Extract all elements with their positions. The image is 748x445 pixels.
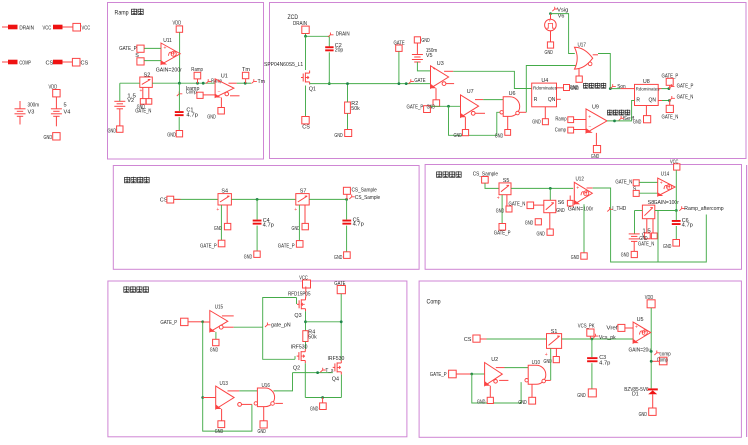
wire [587, 187, 593, 189]
node IRF530 label [291, 344, 308, 350]
svg-text:GND: GND [334, 133, 342, 139]
ground [505, 130, 511, 136]
ground [244, 251, 260, 260]
node drain junction [304, 35, 307, 38]
svg-text:GND: GND [591, 154, 599, 160]
port pin square [556, 200, 573, 214]
port pin square [651, 233, 657, 239]
capacitor C4 [253, 218, 274, 229]
svg-text:Comp: Comp [186, 90, 197, 96]
wire [607, 101, 635, 121]
svg-text:GND: GND [292, 226, 300, 232]
svg-text:V5: V5 [426, 53, 433, 59]
svg-text:GND: GND [577, 393, 585, 399]
node BZV85-5V6 label [624, 387, 648, 393]
port VCC [43, 23, 91, 31]
node comp junction [650, 350, 653, 353]
wire [203, 397, 216, 399]
wire [456, 373, 472, 375]
node ts junction [316, 371, 319, 374]
node cs junction [256, 198, 259, 201]
svg-text:GATE_P: GATE_P [200, 244, 217, 250]
node gate_pN label [265, 323, 291, 329]
svg-text:+: + [164, 46, 167, 52]
logic gate U17 [575, 43, 593, 70]
wire [230, 95, 240, 97]
svg-text:GND: GND [633, 119, 641, 125]
node S [135, 53, 139, 59]
wire [322, 398, 324, 403]
wire [222, 315, 234, 317]
ground [414, 37, 430, 44]
wire [483, 99, 503, 101]
svg-text:GND: GND [496, 209, 504, 215]
port pin square [140, 99, 146, 105]
port Ramp [555, 117, 573, 123]
node cssample junction [345, 198, 348, 201]
svg-text:Q1: Q1 [309, 86, 316, 92]
port GATE_P [494, 224, 511, 237]
capacitor C1 [175, 108, 198, 119]
wire [639, 192, 658, 194]
node push-pull block frame [108, 281, 407, 437]
wire [550, 348, 552, 380]
flip-flop U4 [532, 78, 558, 107]
port pin square [214, 223, 231, 232]
svg-text:Comp: Comp [427, 299, 441, 306]
wire [256, 226, 258, 251]
transistor Q3 [294, 297, 305, 319]
node GATE_N label [669, 95, 693, 101]
wire [226, 205, 228, 223]
op-amp U7 [461, 89, 479, 117]
node title push-pull [124, 286, 149, 292]
svg-text:GND: GND [207, 115, 216, 121]
ground [210, 339, 219, 353]
svg-text:U12: U12 [576, 176, 584, 182]
svg-text:+: + [588, 114, 591, 120]
svg-text:U14: U14 [661, 171, 669, 177]
wire [544, 107, 546, 119]
ground [537, 229, 554, 237]
svg-text:+: + [217, 79, 220, 85]
wire [635, 210, 643, 212]
switch S1 [545, 329, 562, 358]
svg-text:T_s: T_s [325, 368, 333, 374]
svg-text:4.7p: 4.7p [263, 223, 274, 229]
wire [578, 69, 580, 76]
ground [633, 116, 651, 126]
node Seff label [619, 116, 635, 122]
ground [334, 252, 350, 261]
voltage source V3 [15, 101, 40, 125]
node IRF530 label [328, 356, 345, 362]
node GND label [334, 133, 342, 139]
wire [215, 332, 217, 339]
ground [477, 397, 493, 405]
port pin square [137, 58, 144, 65]
ground [44, 133, 61, 141]
node gatep junction [668, 87, 671, 90]
resistor R4 [303, 330, 317, 342]
svg-text:S6: S6 [558, 200, 565, 206]
wire [309, 198, 346, 200]
node Ramp block frame [108, 3, 264, 160]
svg-text:D1: D1 [632, 392, 639, 398]
node T_s label [320, 368, 334, 375]
svg-text:+: + [635, 324, 638, 330]
wire [485, 183, 499, 188]
port CS [160, 196, 174, 203]
port VCS_PK [578, 324, 595, 337]
port pin square [544, 357, 560, 365]
svg-text:50k: 50k [308, 335, 317, 341]
svg-text:+: + [433, 66, 436, 72]
svg-text:RFD15P05: RFD15P05 [288, 292, 311, 298]
node comp label [654, 351, 670, 358]
svg-text:GND: GND [495, 134, 503, 140]
port Comp [555, 127, 574, 133]
wire [296, 298, 298, 305]
wire [507, 116, 509, 129]
wire [669, 101, 671, 106]
wire [298, 205, 300, 241]
wire [501, 195, 503, 224]
port pin square [496, 206, 512, 215]
svg-text:V2: V2 [127, 98, 134, 104]
logic gate U10 [525, 360, 546, 384]
wire [444, 70, 453, 72]
wire [231, 198, 295, 200]
wire [435, 88, 437, 100]
node S8 label [648, 200, 655, 206]
op-amp U12 [568, 176, 593, 212]
wire [662, 88, 669, 90]
port GATE_N [662, 105, 679, 120]
svg-text:GND: GND [427, 104, 435, 110]
wire [557, 87, 564, 89]
svg-text:R: R [534, 97, 538, 103]
wire [526, 66, 575, 113]
svg-text:GND: GND [545, 50, 553, 56]
svg-text:GATE_N: GATE_N [662, 115, 679, 121]
svg-text:GATE_N: GATE_N [509, 202, 526, 208]
ground [345, 130, 352, 137]
svg-text:GATE_P: GATE_P [677, 84, 694, 90]
wire [534, 204, 544, 206]
svg-text:V3: V3 [28, 110, 35, 116]
port GATE_P [662, 73, 679, 85]
wire [178, 117, 180, 130]
wire [274, 373, 293, 391]
wire [489, 386, 491, 398]
svg-text:U13: U13 [220, 381, 228, 387]
wire [658, 100, 662, 102]
wire [655, 210, 677, 212]
node RFD15P05 label [288, 292, 311, 298]
svg-text:QN: QN [548, 97, 556, 103]
capacitor C5 [342, 218, 363, 228]
svg-text:VCC: VCC [82, 26, 91, 32]
wire [746, 165, 748, 437]
wire [499, 379, 508, 381]
port CS [46, 58, 89, 66]
svg-text:+: + [294, 207, 297, 213]
capacitor C3 [587, 355, 610, 367]
wire [263, 407, 265, 421]
wire [506, 195, 508, 206]
svg-text:−: − [218, 89, 221, 95]
wire [675, 170, 677, 210]
op-amp U11 [156, 38, 182, 74]
port GATE_P [430, 370, 456, 378]
wire [662, 100, 669, 102]
capacitor C2 [325, 43, 343, 54]
wire [275, 402, 283, 404]
transistor Q4 [332, 360, 342, 382]
wire [480, 338, 546, 340]
port pin square [146, 99, 152, 105]
node vcspk junction [591, 338, 594, 341]
wire [120, 82, 140, 84]
node ramp junction [196, 82, 199, 85]
svg-text:Q4: Q4 [332, 377, 339, 383]
wire [658, 88, 661, 90]
port GATE [394, 40, 406, 51]
svg-text:GND: GND [518, 400, 526, 406]
svg-text:DRAIN: DRAIN [336, 32, 350, 38]
ground [167, 131, 182, 139]
svg-text:U11: U11 [163, 38, 172, 44]
ground [576, 76, 582, 82]
svg-text:CS: CS [302, 125, 310, 131]
wire [328, 36, 330, 46]
svg-text:Vref: Vref [606, 326, 618, 332]
wire [223, 326, 234, 328]
wire [639, 181, 658, 183]
svg-text:I_THD: I_THD [612, 206, 626, 212]
switch S2 [140, 72, 153, 93]
svg-text:U6: U6 [509, 91, 516, 97]
ground [310, 403, 326, 413]
svg-text:4.7p: 4.7p [682, 223, 693, 229]
svg-text:CS: CS [46, 61, 54, 67]
wire [340, 294, 342, 361]
port GATE_P [407, 104, 436, 112]
svg-text:Rdominates: Rdominates [636, 86, 661, 91]
wire [464, 117, 466, 129]
node gate junction [340, 320, 343, 323]
wire [237, 82, 251, 84]
voltage source V2 [114, 94, 136, 126]
svg-text:GATE_P: GATE_P [494, 231, 511, 237]
wire [398, 51, 400, 83]
wire [305, 86, 307, 117]
op-amp U9 [586, 105, 607, 133]
svg-text:Q3: Q3 [294, 313, 301, 319]
port DRAIN [293, 21, 309, 34]
wire [583, 204, 585, 253]
wire [242, 403, 252, 405]
wire [574, 119, 586, 121]
wire [340, 375, 342, 398]
node Ramp label [206, 79, 222, 85]
svg-text:V4: V4 [64, 110, 71, 116]
power VCC [670, 160, 680, 171]
ground [518, 397, 535, 406]
ground [215, 421, 225, 435]
wire [549, 213, 551, 229]
port GATE_P [278, 241, 303, 250]
svg-text:GATE: GATE [414, 78, 426, 84]
wire [453, 71, 532, 88]
node Son label [610, 84, 625, 90]
wire [675, 226, 677, 240]
node title ZCD [288, 14, 299, 21]
wire [551, 14, 575, 54]
node title Ramp [115, 9, 144, 17]
svg-text:Q2: Q2 [293, 366, 300, 372]
ground [663, 240, 680, 251]
op-amp U1 [215, 73, 234, 97]
svg-text:GATE_P: GATE_P [430, 372, 447, 378]
node ZCD block frame [270, 3, 747, 159]
wire [346, 226, 348, 252]
wire [475, 112, 485, 114]
svg-text:4.7p: 4.7p [353, 222, 364, 228]
svg-text:GAIN=100r: GAIN=100r [654, 200, 679, 206]
wire [621, 88, 635, 90]
svg-text:GATE_P: GATE_P [278, 244, 295, 250]
wire [520, 111, 527, 113]
wire [174, 198, 218, 200]
wire [256, 199, 258, 219]
svg-text:GATE_P: GATE_P [407, 105, 424, 111]
ground [108, 126, 124, 135]
svg-text:20p: 20p [335, 48, 343, 54]
port Comp [186, 90, 203, 99]
wire [294, 356, 296, 359]
node gatep junction [201, 320, 204, 323]
node title Comp [427, 299, 441, 306]
node Comp block frame [419, 281, 741, 437]
port pin square [633, 190, 639, 196]
switch S8 [642, 205, 654, 219]
port GATE_P [119, 45, 144, 52]
wire [598, 54, 621, 89]
svg-text:Tm: Tm [258, 79, 266, 85]
node D1 label [632, 392, 639, 398]
switch S6 [544, 200, 564, 213]
port pin square [292, 223, 309, 232]
svg-text:+: + [576, 186, 579, 192]
svg-text:GND: GND [663, 244, 671, 250]
port GATE_P [200, 240, 225, 249]
svg-text:GND: GND [421, 38, 429, 44]
power VDD [645, 295, 655, 308]
resistor R2 [345, 101, 360, 113]
wire [557, 98, 561, 100]
svg-text:U7: U7 [467, 89, 474, 95]
wire [417, 62, 430, 71]
ground [207, 108, 224, 121]
svg-text:GND: GND [334, 255, 342, 261]
node Vcs_pk label [593, 334, 616, 341]
wire [430, 105, 460, 107]
wire [472, 373, 485, 375]
wire [675, 211, 677, 221]
svg-text:Son: Son [617, 84, 625, 90]
svg-text:GATE_P: GATE_P [160, 320, 177, 326]
node sample-hold block frame [113, 166, 419, 270]
wire [657, 211, 659, 263]
svg-text:+: + [660, 180, 663, 186]
wire [505, 367, 529, 369]
wire [144, 60, 161, 62]
wire [593, 54, 598, 56]
svg-text:GND: GND [310, 406, 318, 412]
node gate junction [405, 82, 408, 85]
wire [545, 379, 550, 381]
logic gate U16 [254, 383, 275, 407]
svg-text:GND: GND [454, 133, 462, 139]
wire [549, 188, 551, 200]
wire [305, 36, 307, 70]
svg-text:GND: GND [532, 120, 540, 126]
svg-text:Ramp: Ramp [115, 10, 129, 17]
ground [621, 251, 638, 258]
wire [305, 287, 307, 298]
port Comp [657, 357, 668, 365]
node gatep junction [470, 373, 473, 376]
svg-text:GND: GND [244, 254, 252, 260]
svg-text:CS: CS [81, 61, 89, 67]
ground [564, 85, 579, 93]
wire [305, 342, 307, 350]
wire [229, 82, 237, 84]
node rampafter junction [675, 209, 678, 212]
voltage source V5 [412, 43, 438, 62]
ground [545, 42, 554, 56]
wire [188, 321, 203, 323]
svg-text:GND: GND [570, 85, 578, 91]
wire [263, 298, 297, 360]
wire [589, 336, 591, 339]
diode D1 [648, 388, 658, 408]
wire [625, 327, 633, 329]
svg-text:GND: GND [167, 133, 176, 139]
wire [591, 339, 593, 357]
node ramp junction [202, 82, 205, 85]
svg-text:GATE_N: GATE_N [135, 109, 151, 115]
svg-text:U15: U15 [215, 304, 223, 310]
node ctrl-off label [608, 110, 630, 116]
svg-text:Vcs_pk: Vcs_pk [599, 335, 616, 341]
ground [577, 389, 596, 399]
node GND label [570, 85, 578, 91]
wire [472, 374, 521, 403]
node src junction [346, 82, 349, 85]
wire [179, 32, 181, 83]
svg-text:GATE_N: GATE_N [677, 95, 694, 101]
svg-text:DRAIN: DRAIN [19, 26, 34, 32]
wire [152, 82, 215, 84]
node CS_Sample label [349, 195, 380, 202]
svg-text:gate_pN: gate_pN [271, 323, 291, 329]
node GND label [137, 104, 145, 110]
logic gate U6 [500, 91, 520, 116]
switch S4 [216, 189, 231, 213]
